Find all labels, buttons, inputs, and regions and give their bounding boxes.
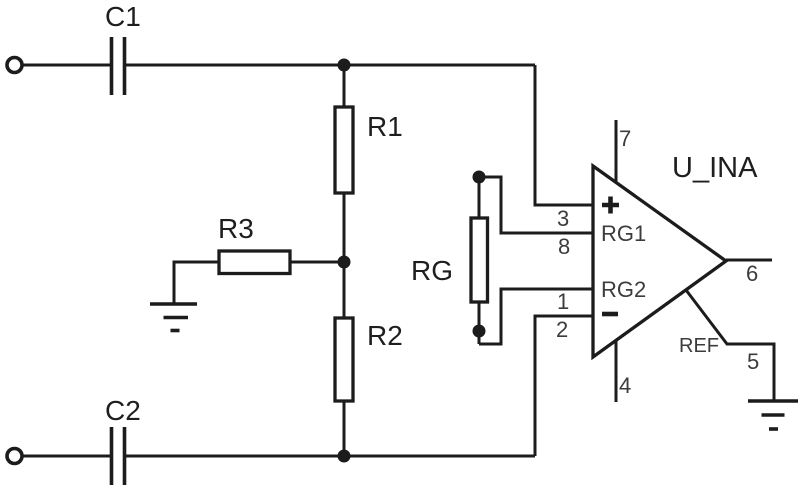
- ground right: [748, 401, 798, 429]
- wire: [126, 64, 535, 67]
- minus symbol: [602, 312, 618, 317]
- wire: [479, 177, 593, 233]
- wire: [343, 401, 346, 456]
- svg-text:RG: RG: [411, 255, 453, 286]
- pin 6 wire: [726, 259, 772, 262]
- input terminal top: [7, 58, 22, 73]
- svg-text:U_INA: U_INA: [672, 152, 758, 184]
- wire: [23, 455, 110, 458]
- wire: [126, 455, 535, 458]
- ground left: [150, 304, 197, 331]
- resistor RG: [471, 218, 488, 302]
- pin 4: [615, 341, 618, 402]
- op-amp U_INA: [593, 166, 726, 357]
- svg-text:5: 5: [747, 349, 759, 374]
- svg-text:3: 3: [557, 206, 569, 231]
- wire: [23, 64, 110, 67]
- capacitor C1: [112, 37, 125, 95]
- svg-text:2: 2: [556, 317, 568, 342]
- node RG top: [473, 171, 486, 184]
- svg-text:1: 1: [557, 289, 569, 314]
- wire: [478, 302, 481, 344]
- wire: [174, 262, 219, 303]
- svg-text:8: 8: [558, 234, 570, 259]
- svg-text:R1: R1: [367, 111, 403, 142]
- wire: [343, 262, 346, 318]
- node bottom junction: [338, 450, 351, 463]
- svg-text:6: 6: [746, 261, 758, 286]
- wire: [343, 193, 346, 262]
- svg-text:R2: R2: [367, 320, 403, 351]
- node mid junction: [338, 256, 351, 269]
- resistor R3: [219, 251, 290, 274]
- input terminal bottom: [7, 449, 22, 464]
- svg-text:C1: C1: [105, 1, 141, 32]
- plus symbol: [602, 197, 619, 214]
- svg-text:R3: R3: [218, 213, 254, 244]
- svg-text:RG1: RG1: [601, 221, 646, 246]
- wire: [478, 177, 481, 218]
- svg-text:REF: REF: [679, 335, 719, 357]
- svg-text:7: 7: [619, 126, 631, 151]
- wire: [479, 289, 593, 344]
- resistor R2: [335, 318, 353, 401]
- wire: [535, 65, 593, 205]
- wire: [535, 316, 593, 456]
- svg-text:C2: C2: [105, 395, 141, 426]
- svg-text:4: 4: [619, 373, 631, 398]
- node RG bottom: [473, 325, 486, 338]
- wire: [290, 261, 344, 264]
- resistor R1: [335, 107, 353, 193]
- wire: [343, 65, 346, 107]
- svg-text:RG2: RG2: [601, 277, 646, 302]
- node top junction: [338, 59, 351, 72]
- pin 7: [615, 120, 618, 182]
- pin 5 REF wire: [686, 290, 774, 401]
- capacitor C2: [112, 427, 125, 485]
